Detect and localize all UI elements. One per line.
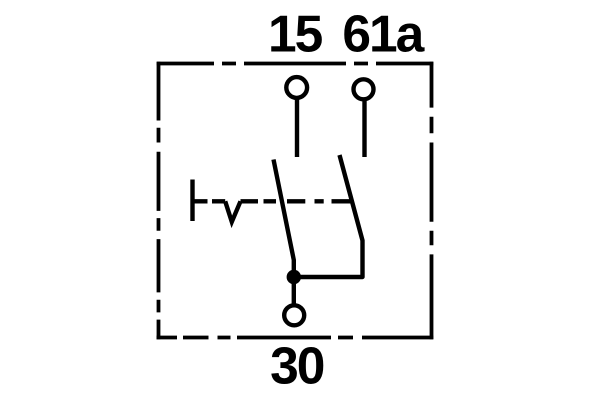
svg-text:15: 15 xyxy=(268,5,323,63)
actuator stop bar xyxy=(190,180,194,222)
actuator dashed linkage with detent V xyxy=(193,201,352,222)
wire stem from terminal 61a xyxy=(362,101,366,157)
wire stem from terminal 15 xyxy=(295,100,299,158)
terminal 61a circle xyxy=(354,79,374,99)
terminal 15 circle xyxy=(286,77,307,98)
junction node xyxy=(287,270,301,284)
svg-text:61a: 61a xyxy=(342,5,424,63)
svg-text:30: 30 xyxy=(270,337,324,395)
terminal 30 circle xyxy=(284,305,304,325)
enclosure dash-dot border xyxy=(157,62,434,340)
switch blade contact for 61a with wire to junction xyxy=(294,155,363,277)
switch blade contact for 15 xyxy=(274,160,294,305)
